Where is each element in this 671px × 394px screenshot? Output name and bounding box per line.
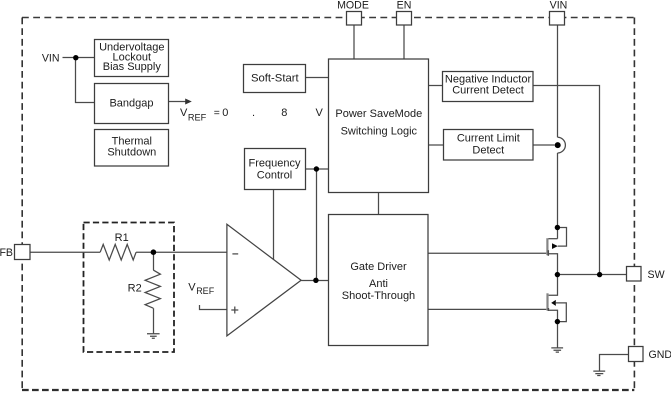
svg-text:REF: REF <box>196 286 215 296</box>
svg-text:Soft-Start: Soft-Start <box>251 72 300 84</box>
svg-text:Power SaveMode: Power SaveMode <box>335 108 422 120</box>
svg-text:=: = <box>214 108 220 119</box>
svg-text:Detect: Detect <box>472 145 504 157</box>
svg-text:V: V <box>316 107 324 119</box>
svg-text:GND: GND <box>649 349 671 361</box>
svg-text:Switching Logic: Switching Logic <box>341 126 418 138</box>
svg-text:FB: FB <box>0 247 13 259</box>
svg-text:.: . <box>252 107 255 119</box>
svg-text:R1: R1 <box>115 232 129 244</box>
svg-text:Gate Driver: Gate Driver <box>350 261 407 273</box>
svg-text:Anti: Anti <box>369 278 388 290</box>
svg-text:REF: REF <box>188 112 207 122</box>
svg-text:Control: Control <box>257 170 292 182</box>
svg-text:Shoot-Through: Shoot-Through <box>342 290 415 302</box>
svg-text:Frequency: Frequency <box>249 158 301 170</box>
svg-text:Thermal: Thermal <box>112 135 152 147</box>
svg-text:EN: EN <box>397 0 412 12</box>
svg-text:Current Detect: Current Detect <box>452 85 524 97</box>
svg-text:SW: SW <box>648 269 665 281</box>
svg-text:Bandgap: Bandgap <box>109 98 153 110</box>
svg-text:Negative Inductor: Negative Inductor <box>445 73 532 85</box>
svg-text:Bias Supply: Bias Supply <box>103 61 162 73</box>
svg-text:R2: R2 <box>128 283 142 295</box>
svg-text:V: V <box>180 107 188 119</box>
svg-text:V: V <box>188 281 196 293</box>
svg-text:0: 0 <box>222 107 228 119</box>
svg-text:VIN: VIN <box>42 52 60 64</box>
svg-text:Shutdown: Shutdown <box>107 147 156 159</box>
svg-text:VIN: VIN <box>550 0 568 12</box>
svg-text:8: 8 <box>281 107 287 119</box>
svg-text:MODE: MODE <box>337 0 369 12</box>
svg-text:Current Limit: Current Limit <box>457 132 520 144</box>
